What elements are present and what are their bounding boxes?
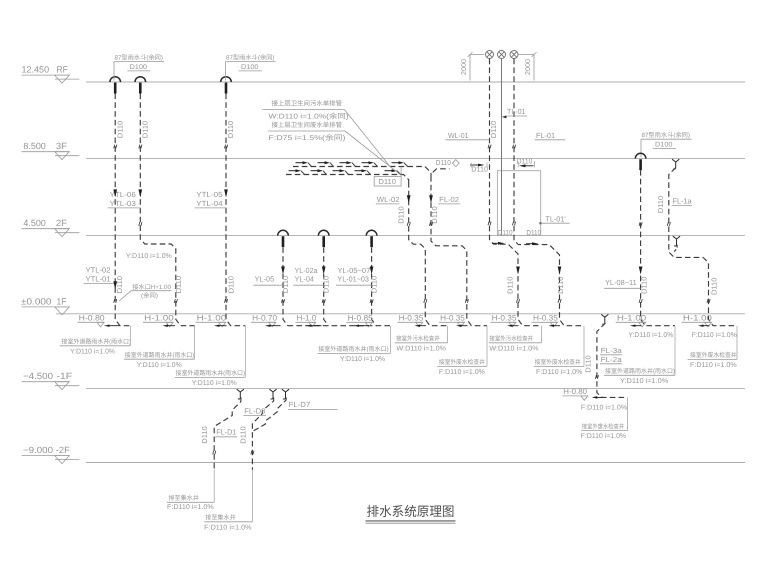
svg-text:D110: D110 <box>141 121 150 138</box>
label H-1.00 at x615 <box>616 313 647 326</box>
svg-text:TL-01': TL-01' <box>545 214 566 223</box>
joint ticks upper <box>114 145 228 149</box>
rain hopper YTL-03 <box>135 77 146 94</box>
svg-text:接室外废水检查井: 接室外废水检查井 <box>535 358 581 366</box>
svg-text:YTL-04: YTL-04 <box>196 199 222 208</box>
svg-text:D110: D110 <box>710 278 719 295</box>
svg-text:YL-05~07: YL-05~07 <box>337 266 370 275</box>
svg-text:FL-D8: FL-D8 <box>244 407 265 416</box>
label sump pit 2 <box>204 470 252 532</box>
funnel FL-D8 <box>269 389 276 399</box>
svg-text:W:D110 i=1.0%: W:D110 i=1.0% <box>396 344 446 352</box>
funnel FL-3a 1F <box>601 314 608 324</box>
pipe FL-D7 <box>252 397 286 431</box>
svg-text:F:D110 i=1.0%: F:D110 i=1.0% <box>439 368 485 376</box>
discharge arrows to inspection wells <box>415 325 710 327</box>
floor line -1F <box>22 371 746 390</box>
riser YL-05 pipe <box>283 247 288 325</box>
dimension 2000 left <box>461 52 484 81</box>
branch arrows upper <box>296 161 408 166</box>
label upper-floor waste branch <box>268 121 346 142</box>
3F branch D110 into FL-01 <box>517 156 535 167</box>
label YTL-05 YTL-04 <box>195 190 227 208</box>
svg-text:接室外污水检查井: 接室外污水检查井 <box>396 335 440 343</box>
svg-text:W:D110 i=1.0%: W:D110 i=1.0% <box>489 344 538 352</box>
label FL-01 <box>535 131 565 140</box>
riser WL-01 pipe <box>490 59 542 326</box>
D110 rotated RF-3F <box>116 121 235 138</box>
floor line 1F <box>21 296 745 315</box>
svg-text:FL-D1: FL-D1 <box>216 428 236 437</box>
svg-text:D110: D110 <box>115 276 124 293</box>
joint tick YL-08~11 <box>639 222 642 303</box>
label WL-01 <box>445 131 489 140</box>
svg-text:FL-01: FL-01 <box>536 131 555 140</box>
2F branch D110 into FL-01 <box>526 228 541 245</box>
svg-text:接室外道路雨水井(雨水口): 接室外道路雨水井(雨水口) <box>62 338 132 346</box>
label H-1.00 at x195 <box>196 313 228 326</box>
svg-text:F:D75 i=1.5%(余同): F:D75 i=1.5%(余同) <box>269 134 346 142</box>
label H-0.70 at x251 <box>251 313 278 326</box>
svg-text:接室外废水检查井: 接室外废水检查井 <box>439 358 485 366</box>
D110 rotated FL-3a <box>584 355 593 372</box>
label WL-02 <box>376 195 400 204</box>
svg-text:2F: 2F <box>56 218 68 228</box>
svg-text:D110: D110 <box>200 426 209 443</box>
label sump pit 1 <box>167 470 214 512</box>
svg-text:D110: D110 <box>370 276 379 293</box>
joint ticks WL-02 FL-02 <box>407 222 468 303</box>
label H-0.35 at x531 <box>532 313 559 326</box>
svg-text:F:D110 i=1.0%: F:D110 i=1.0% <box>690 361 737 369</box>
svg-text:H-1.0: H-1.0 <box>297 313 317 322</box>
flow arrow YL-08~11 <box>639 267 643 275</box>
svg-text:D110: D110 <box>378 177 396 186</box>
svg-text:D110: D110 <box>430 206 439 223</box>
svg-text:H-1.00: H-1.00 <box>683 313 713 322</box>
vent cap WL-01 <box>486 51 494 59</box>
svg-text:±0.000: ±0.000 <box>21 296 52 306</box>
svg-text:3F: 3F <box>56 141 68 151</box>
D110 rotated YL risers <box>281 276 379 293</box>
riser YL-02a/YL-04 pipe <box>324 247 329 325</box>
svg-text:D110: D110 <box>116 121 125 138</box>
svg-text:YTL-02: YTL-02 <box>86 266 111 275</box>
leader diagonals to collectors <box>344 109 399 173</box>
svg-text:D110: D110 <box>640 277 649 294</box>
svg-text:FL-02: FL-02 <box>439 195 459 204</box>
svg-text:YTL-06: YTL-06 <box>110 190 136 199</box>
well label A6 waste <box>437 326 487 376</box>
svg-text:D110: D110 <box>517 156 533 165</box>
label Y:D110 jog <box>126 252 172 260</box>
svg-text:-2F: -2F <box>56 445 71 455</box>
svg-text:YL-02a: YL-02a <box>295 266 319 275</box>
D110 rotated WL-01 riser <box>489 121 498 138</box>
svg-text:H-0.70: H-0.70 <box>252 313 278 322</box>
label D110 box <box>374 167 401 187</box>
svg-text:H-0.35: H-0.35 <box>492 313 517 322</box>
label H-0.85 at x346 <box>346 313 373 326</box>
svg-text:D110: D110 <box>322 276 331 293</box>
svg-text:1F: 1F <box>57 296 67 306</box>
svg-text:H-0.35: H-0.35 <box>399 313 424 322</box>
label H-0.80 basement <box>562 387 588 400</box>
joint tick FL-3a <box>595 375 598 379</box>
svg-text:接室外道路雨水井(雨水口): 接室外道路雨水井(雨水口) <box>176 369 246 377</box>
joint ticks YL <box>282 299 374 303</box>
svg-text:D110: D110 <box>227 276 236 293</box>
svg-text:TL-01: TL-01 <box>507 107 526 116</box>
joint ticks mid <box>114 222 228 303</box>
svg-text:D110: D110 <box>436 158 451 167</box>
well label A2 rain <box>124 326 195 369</box>
label TL-01p <box>539 214 569 224</box>
D110 rotated WL-01 FL-01 lower <box>505 277 565 294</box>
svg-text:接上层卫生间废水单排管: 接上层卫生间废水单排管 <box>272 121 343 129</box>
D110 rotated YL-08~11 <box>640 277 649 294</box>
lower branch collector <box>286 175 409 183</box>
svg-text:2000: 2000 <box>525 59 532 75</box>
svg-text:D110: D110 <box>281 276 290 293</box>
svg-text:H-1.00: H-1.00 <box>617 313 647 322</box>
2F branch D110 into WL-01 <box>492 228 513 245</box>
svg-text:YL-08~11: YL-08~11 <box>605 278 637 287</box>
svg-text:D100: D100 <box>130 64 148 71</box>
svg-text:YL-04: YL-04 <box>295 275 315 284</box>
joint ticks WL-01 FL-01 <box>488 145 561 303</box>
svg-text:2000: 2000 <box>461 59 468 75</box>
svg-text:4.500: 4.500 <box>23 218 45 228</box>
svg-text:F:D110 i=1.0%: F:D110 i=1.0% <box>167 503 214 511</box>
vent pipe TL-01 <box>501 59 503 236</box>
svg-text:87型雨水斗(余同): 87型雨水斗(余同) <box>226 54 275 62</box>
floor line 3F <box>22 141 746 160</box>
discharge arrow FL-3a <box>592 396 604 399</box>
label connection H+1.00 <box>119 283 171 301</box>
label TL-01 <box>502 107 527 118</box>
well label A1 rain <box>60 326 131 355</box>
svg-text:H-0.35: H-0.35 <box>533 313 559 322</box>
well label A5 sewage <box>395 326 448 352</box>
label FL-D1 <box>215 428 237 437</box>
svg-text:H-0.80: H-0.80 <box>79 313 106 322</box>
riser FL-3a/FL-2a pipe <box>597 323 628 397</box>
label D110 diamond <box>433 158 459 172</box>
svg-text:接上层卫生间污水单排管: 接上层卫生间污水单排管 <box>272 100 343 108</box>
label FL-3a FL-2a <box>600 346 623 364</box>
riser FL-01 pipe <box>514 59 584 326</box>
dimension 2000 right <box>519 52 537 81</box>
label 87-type rain hopper mid <box>225 54 275 81</box>
label YTL-02 YTL-01 <box>84 266 117 284</box>
well label A9 rain <box>604 326 675 385</box>
svg-text:FL-1a: FL-1a <box>673 196 693 205</box>
rain hopper YL-05~07 (2F) <box>366 230 377 247</box>
svg-text:−4.500: −4.500 <box>23 371 53 381</box>
svg-text:接室外废水检查井: 接室外废水检查井 <box>582 422 624 430</box>
svg-text:D110: D110 <box>174 276 183 293</box>
svg-text:D100: D100 <box>655 142 673 149</box>
svg-text:Y:D110 i=1.0%: Y:D110 i=1.0% <box>340 355 385 363</box>
svg-text:接室外道路雨水井(雨水口): 接室外道路雨水井(雨水口) <box>318 345 389 353</box>
svg-text:D110: D110 <box>505 277 514 294</box>
svg-text:Y:D110 i=1.0%: Y:D110 i=1.0% <box>126 252 172 260</box>
floor line RF <box>22 65 746 84</box>
joint ticks FL-1a <box>667 222 710 303</box>
shaft box 3F <box>497 171 540 236</box>
3F branch D110 into WL-01 <box>470 163 488 174</box>
branch arrows lower <box>289 169 401 174</box>
funnel FL-D1 <box>237 389 244 399</box>
svg-text:F:D110 i=1.0%: F:D110 i=1.0% <box>581 404 627 412</box>
svg-text:-1F: -1F <box>57 371 73 381</box>
riser YTL-05/YTL-04 pipe <box>226 94 245 326</box>
label H-0.80 at x77 <box>78 313 106 326</box>
flow arrows YTL top <box>113 189 228 197</box>
flow arrow YTL-01 <box>113 281 117 289</box>
riser YTL-06/YTL-02 pipe <box>115 94 130 326</box>
label 87-type rain hopper left <box>114 54 164 81</box>
well label A7 sewage <box>489 326 542 352</box>
svg-text:Y:D110 i=1.0%: Y:D110 i=1.0% <box>628 331 673 339</box>
svg-text:F:D110 i=1.0%: F:D110 i=1.0% <box>204 523 251 531</box>
svg-text:YL-05: YL-05 <box>255 275 275 284</box>
floor line -2F <box>22 445 746 464</box>
svg-text:H-0.85: H-0.85 <box>348 313 374 322</box>
svg-text:D110: D110 <box>656 196 665 213</box>
label H-1.00 at x143 <box>143 313 175 326</box>
svg-text:F:D110 i=1.0%: F:D110 i=1.0% <box>536 368 582 376</box>
pipe FL-D1 <box>214 397 241 469</box>
svg-text:D110: D110 <box>239 426 248 443</box>
D110 rotated WL-02 FL-02 <box>397 206 439 223</box>
svg-text:接室外废水检查井: 接室外废水检查井 <box>690 351 737 359</box>
title drainage system schematic <box>366 504 456 523</box>
riser YL-05~07 pipe <box>372 247 377 325</box>
label H-1.0 at x295 <box>296 313 317 326</box>
svg-text:8.500: 8.500 <box>23 141 45 151</box>
label H-0.35 at x439 <box>439 313 466 326</box>
riser FL-02 pipe <box>431 176 487 326</box>
label YL-05~07 YL-01~03 <box>336 266 372 285</box>
well label A10 waste <box>688 326 738 369</box>
svg-text:RF: RF <box>57 65 69 75</box>
svg-text:87型雨水斗(余同): 87型雨水斗(余同) <box>115 54 164 62</box>
svg-text:接室外道路雨水井(雨水口): 接室外道路雨水井(雨水口) <box>605 367 675 375</box>
svg-text:F:D110 i=1.0%: F:D110 i=1.0% <box>581 432 627 440</box>
svg-text:D110: D110 <box>489 121 498 138</box>
svg-text:87型雨水斗(余同): 87型雨水斗(余同) <box>642 131 691 139</box>
svg-text:(余同): (余同) <box>141 292 158 300</box>
D110 rotated FL-1a upper <box>656 196 665 213</box>
label upper-floor sewage branch <box>263 100 349 121</box>
svg-text:−9.000: −9.000 <box>23 445 53 455</box>
label FL-D8 <box>243 407 266 416</box>
riser YL-08~11 pipe <box>641 170 675 326</box>
pipe FL-D8 <box>252 397 273 469</box>
riser FL-1a pipe <box>669 168 737 326</box>
upper branch collector <box>293 167 431 177</box>
svg-text:WL-01: WL-01 <box>448 131 469 140</box>
vent cap TL-01 <box>498 51 506 59</box>
svg-text:D110: D110 <box>526 228 541 237</box>
svg-text:FL-3a: FL-3a <box>601 346 623 355</box>
rain hopper YL-02a/04 (2F) <box>318 230 329 247</box>
svg-text:D110: D110 <box>226 121 235 138</box>
label FL-1a <box>672 196 693 205</box>
svg-text:Y:D110 i=1.0%: Y:D110 i=1.0% <box>70 347 115 355</box>
svg-text:接室外污水检查井: 接室外污水检查井 <box>489 335 533 343</box>
svg-text:D110: D110 <box>397 206 406 223</box>
svg-text:W:D110 i=1.0%(余同): W:D110 i=1.0%(余同) <box>269 113 349 121</box>
svg-text:D110: D110 <box>498 228 513 237</box>
label 87-type rain hopper right (3F) <box>641 131 692 157</box>
svg-text:Y:D110 i=1.0%: Y:D110 i=1.0% <box>620 377 668 385</box>
rain hopper YTL-06 <box>110 77 121 94</box>
flow arrows WL-01 FL-01 <box>516 267 561 275</box>
label YL-05 <box>253 275 283 286</box>
svg-text:D100: D100 <box>241 64 259 71</box>
label FL-D7 <box>288 400 338 409</box>
well label A11 waste basement <box>581 397 628 440</box>
rain hopper YL-08 (3F) <box>635 153 646 170</box>
flow arrows YL risers <box>281 267 373 275</box>
svg-text:接水口H+1.00: 接水口H+1.00 <box>132 283 171 291</box>
svg-text:YTL-03: YTL-03 <box>110 199 136 208</box>
well label A3 rain <box>175 326 246 387</box>
well label A8 waste <box>534 326 584 376</box>
label YL-02a YL-04 <box>293 266 324 285</box>
riser YTL-03 pipe (jog at 2F) <box>140 94 194 326</box>
rain hopper YTL-05 <box>221 77 232 94</box>
svg-text:F:D110 i=1.0%: F:D110 i=1.0% <box>692 331 737 339</box>
D110 rotated 2F-1F left <box>115 276 236 293</box>
svg-text:D110: D110 <box>556 277 565 294</box>
flow arrows WL-02 FL-02 <box>407 195 433 203</box>
svg-text:12.450: 12.450 <box>22 65 50 75</box>
svg-text:H-1.00: H-1.00 <box>144 313 174 322</box>
svg-text:D110: D110 <box>584 355 593 372</box>
label H-0.35 at x490 <box>491 313 518 326</box>
funnel FL-1a 2F <box>673 236 681 253</box>
floor line 2F <box>22 218 746 237</box>
svg-text:YTL-05: YTL-05 <box>196 190 222 199</box>
D110 rotated FL-1a lower <box>710 278 719 295</box>
label YL-08~11 <box>604 278 641 288</box>
svg-text:Y:D110 i=1.0%: Y:D110 i=1.0% <box>137 361 182 369</box>
riser WL-02 pipe <box>409 182 448 326</box>
rain hopper YL-05 (2F) <box>278 230 289 247</box>
svg-text:YL-01~03: YL-01~03 <box>337 275 369 284</box>
svg-text:排至集水井: 排至集水井 <box>205 513 236 521</box>
funnel FL-1a 3F <box>672 159 679 169</box>
svg-text:FL-D7: FL-D7 <box>289 400 311 409</box>
svg-text:H-0.35: H-0.35 <box>440 313 465 322</box>
svg-text:FL-2a: FL-2a <box>601 355 623 364</box>
label H-1.00 at x681 <box>682 313 713 326</box>
label FL-02 <box>438 195 460 204</box>
funnel FL-D7 <box>282 389 289 399</box>
svg-text:YTL-01: YTL-01 <box>86 275 111 284</box>
svg-text:H-1.00: H-1.00 <box>197 313 227 322</box>
svg-text:H-0.80: H-0.80 <box>563 387 587 396</box>
label H-0.35 at x397 <box>397 313 424 326</box>
discharge arrows to rain inlets <box>104 325 369 327</box>
well label A4 rain <box>318 326 391 363</box>
svg-text:WL-02: WL-02 <box>377 195 400 204</box>
joint ticks FL-D <box>213 451 254 455</box>
D110 rotated FL-D <box>200 426 248 443</box>
label YTL-06 YTL-03 <box>108 190 141 208</box>
buried rain collector run <box>288 325 391 327</box>
svg-text:Y:D110 i=1.0%: Y:D110 i=1.0% <box>192 379 237 387</box>
svg-text:接室外道路雨水井(雨水口): 接室外道路雨水井(雨水口) <box>125 351 195 359</box>
svg-text:排至集水井: 排至集水井 <box>168 494 199 502</box>
svg-text:排水系统原理图: 排水系统原理图 <box>367 504 455 519</box>
vent cap FL-01 <box>510 51 518 59</box>
